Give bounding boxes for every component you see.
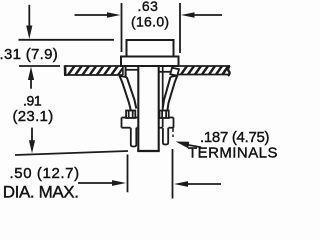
shoulder block xyxy=(122,118,174,128)
svg-text:(16.0): (16.0) xyxy=(131,13,169,29)
cap (lens) xyxy=(127,40,174,57)
central tube bottom xyxy=(137,150,159,152)
svg-text:DIA. MAX.: DIA. MAX. xyxy=(3,183,79,201)
dim .31 down arrow xyxy=(28,5,30,28)
dim .50 left arrow xyxy=(78,182,114,184)
svg-text:.91: .91 xyxy=(23,93,42,109)
svg-text:.50 (12.7): .50 (12.7) xyxy=(10,165,80,182)
panel right hatched strip xyxy=(177,66,230,77)
right snap wing xyxy=(163,68,179,111)
dim .91 down arrow xyxy=(31,128,33,142)
dim .63 right extension line xyxy=(179,3,181,53)
dim .50 left extension line xyxy=(127,155,129,193)
tube inner wall right xyxy=(162,67,164,127)
left snap wing xyxy=(120,76,137,111)
dim .50 right arrow xyxy=(186,183,221,185)
dim .31 up arrow xyxy=(28,67,34,80)
svg-text:.187 (4.75): .187 (4.75) xyxy=(200,129,270,146)
central tube left wall xyxy=(137,66,139,152)
dim .91 bottom extension line xyxy=(15,151,128,155)
flange xyxy=(121,57,179,67)
dim .50 right extension line xyxy=(172,149,174,199)
dim .63 right arrow xyxy=(193,14,222,16)
svg-text:.63: .63 xyxy=(138,0,159,14)
panel left hatched strip xyxy=(65,65,124,76)
body barrel wall right xyxy=(172,66,174,75)
svg-text:TERMINALS: TERMINALS xyxy=(188,145,278,162)
body barrel wall left xyxy=(125,66,127,77)
svg-text:(23.1): (23.1) xyxy=(13,108,54,125)
dim .31 bottom extension line xyxy=(19,65,60,67)
dim .187 terminals arrow xyxy=(187,145,201,148)
barrel slot top left xyxy=(126,69,138,71)
left terminal xyxy=(131,128,137,147)
central tube right wall xyxy=(158,66,160,152)
svg-text:.31 (7.9): .31 (7.9) xyxy=(0,46,58,63)
dim .63 left arrow xyxy=(75,14,109,16)
dim .63 left extension line xyxy=(121,3,123,52)
right terminal xyxy=(163,128,168,145)
dim .50 right extension line upper dashes xyxy=(172,128,174,138)
left wing bottom stub xyxy=(126,111,135,119)
dim .31 top extension line xyxy=(19,39,115,41)
barrel slot top right xyxy=(159,71,171,73)
right wing bottom stub xyxy=(160,111,169,119)
